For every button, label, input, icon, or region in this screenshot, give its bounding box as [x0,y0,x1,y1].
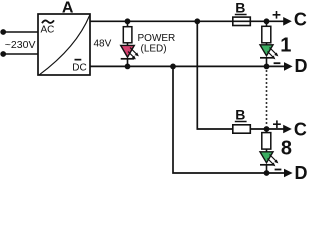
node: junction top bus / power LED branch [125,18,131,24]
svg-text:D: D [295,163,308,182]
svg-text:C: C [294,120,307,140]
svg-text:~230V: ~230V [5,39,36,51]
wire: 0V bottom bus (D) [90,65,284,67]
label - (channel 8 polarity) [275,169,282,171]
label + (channel 8 polarity) [273,120,281,128]
svg-text:1: 1 [280,35,291,57]
node: junction channel 8 fuse output [264,126,270,132]
fuse B (channel 8) [233,125,284,133]
svg-text:B: B [235,107,245,123]
AC input terminal (top) [0,29,6,35]
terminal C (channel 8) arrow [283,125,292,134]
node: channel 1 LED to 0V bus [264,64,270,70]
label POWER (LED) [138,33,176,54]
label - (channel 1 polarity) [274,62,281,64]
resistor (channel 1 series) [262,21,271,43]
svg-text:DC: DC [72,62,86,73]
wire: top AC input to converter [3,31,38,33]
wire: channel 8 feeder (down from top bus) [197,21,233,129]
node: junction top bus / channel 1 fuse output [264,18,270,24]
AC input terminal (bottom) [0,51,6,57]
node: junction top bus / channel 8 feeder [194,18,200,24]
LED POWER (red) [121,43,139,67]
resistor (channel 8 series) [262,129,271,149]
svg-text:8: 8 [281,138,292,160]
svg-text:B: B [235,0,245,16]
svg-text:D: D [295,56,308,76]
LED channel 8 (green) [260,149,278,173]
svg-text:48V: 48V [94,39,112,50]
svg-text:A: A [62,0,74,17]
label B (channel 1 fuse) [235,0,247,16]
LED channel 1 (green) [260,43,278,67]
terminal D (channel 8) arrow [284,169,293,178]
node: channel 8 LED to return wire [264,170,270,176]
fuse B (channel 1) [233,17,251,25]
terminal D (channel 1) arrow [284,62,293,71]
node: junction 0V bus / channel 8 return [170,64,176,70]
dotted line: channels 2..7 omitted [266,70,268,126]
wire: +48V top bus [90,20,284,22]
terminal C (channel 1) arrow [283,17,292,26]
svg-text:AC: AC [41,25,55,36]
node: power LED branch to 0V bus [125,64,131,70]
power supply A (AC/DC converter) [38,14,90,75]
label B (channel 8 fuse) [235,107,247,123]
wire: bottom AC input to converter [3,53,38,55]
svg-text:POWER: POWER [138,33,176,44]
wire: channel 8 return (down from 0V bus) [173,66,284,173]
svg-text:C: C [294,10,307,30]
svg-text:(LED): (LED) [141,44,167,55]
label + (channel 1 polarity) [273,11,281,19]
resistor (power LED series) [123,21,132,43]
